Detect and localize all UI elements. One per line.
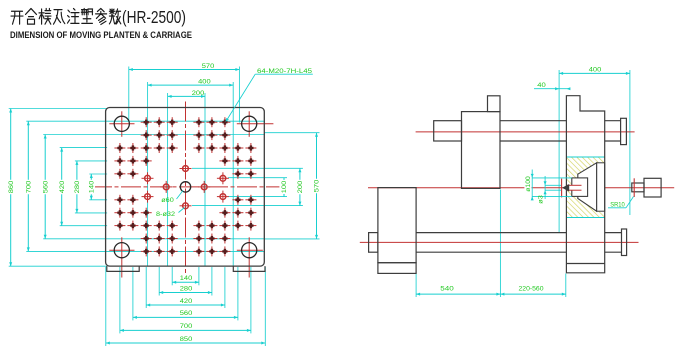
red centerline vertical (platen) [185,102,187,274]
top tie bar right stub [605,120,621,122]
locating ring [572,178,588,197]
svg-text:420: 420 [180,298,193,305]
svg-text:DIMENSION OF MOVING PLANTEN &: DIMENSION OF MOVING PLANTEN & CARRIAGE [10,30,192,41]
bottom tie bar left cap [369,233,378,253]
dim 220-560 [500,293,565,295]
lower-left block (carriage cylinder) [378,188,416,263]
sprue channel [566,185,581,190]
sprue inlet triangle [562,184,569,192]
dim 280 left [76,161,78,213]
title Chinese: 开合模及注塑参数 (drawn strokes) [11,9,121,25]
moving platen top block [488,96,501,112]
injection nozzle body [644,178,661,197]
tie-bar hole 4 [242,243,257,258]
leader ø60 [177,191,184,200]
dim 420 bottom [146,304,225,306]
dim 200 right [299,168,301,205]
dim 200 top [168,95,205,97]
platen outline [106,108,265,267]
lower-left block foot [378,263,416,274]
dim ø3 [544,176,546,199]
dim 560 bottom [133,316,238,318]
center hole (ø60) [180,182,190,192]
dim 400 (right view) [559,72,630,74]
svg-text:560: 560 [180,310,193,317]
svg-text:560: 560 [42,180,49,193]
dim 280 bottom [159,292,212,294]
platen foot left [107,266,139,271]
red main axis (nozzle centerline) [368,187,674,189]
svg-text:ø60: ø60 [161,197,174,204]
svg-text:100: 100 [281,180,288,193]
tie-bar hole 3 [114,243,129,258]
dim 570 right [316,133,318,239]
ext 400 left / 40 [558,70,560,232]
dim 700 bottom [120,329,251,331]
extension lines right dims [264,132,319,134]
svg-text:700: 700 [180,323,193,330]
dim 700 left [27,121,29,251]
extension lines left dims [9,108,107,110]
svg-text:(HR-2500): (HR-2500) [122,7,186,27]
svg-text:ø3: ø3 [538,195,545,204]
pocket white rect right [597,163,605,211]
dim 420 left [61,148,63,226]
top tie bar left stub [434,121,462,141]
dim 570 top [129,69,240,71]
dim ø100 [531,170,533,201]
dim 860 left [10,109,12,267]
red axis top tie bar [416,131,635,133]
svg-text:ø100: ø100 [525,176,532,192]
corner circle centerlines [121,111,123,137]
top tie bar mid [500,120,566,122]
dim 850 bottom [106,342,265,344]
svg-text:400: 400 [198,79,211,86]
moving platen column [462,112,501,189]
dim 140 bottom [172,281,199,283]
svg-text:40: 40 [537,82,546,89]
svg-text:280: 280 [180,285,193,292]
svg-text:220-560: 220-560 [519,286,545,293]
stationary platen outline [566,96,604,273]
svg-text:200: 200 [297,180,304,193]
stationary platen: hatch pocket [566,157,604,218]
svg-text:200: 200 [192,90,205,97]
dim 100 right [283,178,285,197]
svg-text:540: 540 [440,286,454,293]
svg-text:420: 420 [59,180,66,193]
tie-bar hole 2 [242,116,257,131]
svg-text:400: 400 [589,67,602,74]
svg-text:64-M20-7H-L45: 64-M20-7H-L45 [257,68,313,75]
grid of tapped holes [141,117,152,127]
svg-text:140: 140 [89,180,96,193]
8 bolt holes (8-ø32) [180,163,192,175]
injection nozzle tip [632,183,644,192]
svg-text:860: 860 [8,180,15,193]
dim 400 top [148,84,234,86]
nozzle tip red tick [633,178,635,197]
extension lines top dims [128,67,130,123]
dim 560 left [44,135,46,239]
extension lines bottom dims [171,267,173,285]
pocket top/bottom cyan lines [566,156,604,158]
leader 8-ø32 [179,208,185,213]
tie-bar hole 1 [114,116,129,131]
ext 400 right [629,70,631,215]
svg-text:8-ø32: 8-ø32 [156,211,176,218]
bottom tie bar [416,232,566,234]
sprue inlet red tick [561,179,563,198]
bottom tie bar right stub [605,232,622,234]
red centerline horizontal (platen) [92,186,279,188]
dim 140 left [90,174,92,200]
svg-text:280: 280 [74,180,81,193]
ext bottom dims [415,271,417,297]
top tie bar right cap [621,118,627,144]
stationary platen foot line [566,263,604,265]
dim 40 [534,88,570,90]
dim 540 [416,293,500,295]
platen foot right [233,266,265,271]
bottom tie bar right cap [622,229,627,256]
nozzle seat cone [578,163,597,211]
svg-text:570: 570 [202,63,215,70]
svg-text:570: 570 [314,179,321,192]
svg-text:140: 140 [180,275,193,282]
svg-text:700: 700 [26,180,33,193]
svg-text:850: 850 [180,336,193,343]
red axis bottom tie bar [360,241,639,243]
